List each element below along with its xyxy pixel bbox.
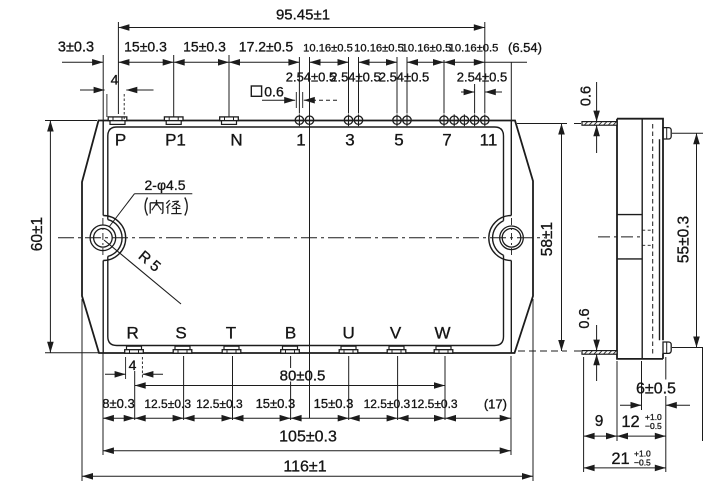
svg-text:7: 7 <box>442 131 451 150</box>
svg-text:R: R <box>127 324 139 343</box>
signal pin x=358.5 <box>354 116 362 124</box>
svg-text:10.16±0.5: 10.16±0.5 <box>303 43 353 55</box>
svg-text:2-φ4.5: 2-φ4.5 <box>145 177 186 193</box>
svg-text:3: 3 <box>345 131 354 150</box>
extension line pin 11 <box>484 22 486 114</box>
svg-text:N: N <box>230 131 242 150</box>
right boss arcs <box>493 221 504 255</box>
side top terminal lug <box>582 122 617 126</box>
extension line case right top <box>510 62 512 121</box>
extension line N <box>228 55 230 117</box>
svg-text:(17): (17) <box>484 397 507 412</box>
side bottom terminal lug <box>582 351 617 355</box>
extension line case left <box>102 55 104 121</box>
terminal lug P <box>108 117 127 121</box>
signal pin 10 <box>470 116 478 124</box>
left boss arcs <box>108 220 122 257</box>
svg-text:15±0.3: 15±0.3 <box>256 396 296 411</box>
dim 10.16 3-5 <box>359 61 398 63</box>
dim 10.16 7-11 <box>444 61 485 63</box>
dim 3±0.3 <box>62 61 103 63</box>
terminal lug V <box>389 346 404 350</box>
svg-text:(6.54): (6.54) <box>508 40 542 55</box>
svg-text:58±1: 58±1 <box>539 222 556 256</box>
svg-text:P1: P1 <box>165 131 186 150</box>
svg-text:15±0.3: 15±0.3 <box>314 396 354 411</box>
svg-text:12: 12 <box>621 413 639 431</box>
svg-text:1: 1 <box>296 131 305 150</box>
side top screw head <box>663 128 671 139</box>
extension lines bottom terminals <box>134 371 136 420</box>
dim 55±0.3 <box>672 132 703 134</box>
dim 60±1 left <box>45 120 97 122</box>
svg-text:9: 9 <box>595 413 604 430</box>
svg-text:T: T <box>226 324 236 343</box>
side view centerline <box>598 236 640 238</box>
svg-text:0.6: 0.6 <box>264 84 284 100</box>
svg-text:12.5±0.3: 12.5±0.3 <box>144 397 191 411</box>
terminal lug W <box>436 346 451 350</box>
right hole vertical centerline <box>511 218 513 258</box>
signal pin x=348.5 <box>344 116 352 124</box>
side hidden hole lines <box>642 229 653 231</box>
case step line right <box>510 121 512 216</box>
svg-text:12.5±0.3: 12.5±0.3 <box>411 397 458 411</box>
dim 10.16 1-3 <box>310 61 349 63</box>
dim 95.45±1 <box>118 27 484 29</box>
label square 0.6 pin section <box>251 86 261 96</box>
svg-text:5: 5 <box>394 131 403 150</box>
svg-text:116±1: 116±1 <box>283 459 326 476</box>
svg-text:8±0.3: 8±0.3 <box>102 396 134 411</box>
left mounting hole <box>94 229 113 248</box>
extension case-right below <box>510 356 512 455</box>
label R5 with leader <box>104 240 181 304</box>
side view internal vertical <box>641 119 643 359</box>
extension line P1 <box>173 55 175 117</box>
dim 17.2±0.5 N-1 <box>229 61 299 63</box>
extension right edge below <box>532 299 534 481</box>
signal pin x=397.0 <box>393 116 401 124</box>
dim 80±0.5 <box>135 385 445 387</box>
inner face outline <box>108 127 504 221</box>
svg-text:2.54±0.5: 2.54±0.5 <box>286 70 337 85</box>
dim 10.16 5-7 <box>407 61 444 63</box>
module body outline (front view) <box>82 121 533 354</box>
signal pin x=299.4 <box>295 116 303 124</box>
signal pin 7 <box>440 116 448 124</box>
right mounting hole <box>502 229 521 248</box>
svg-text:4: 4 <box>129 357 137 373</box>
side boss section lines <box>617 214 642 216</box>
signal pin x=309.5 <box>305 116 313 124</box>
svg-text:S: S <box>175 324 186 343</box>
signal pin 8 <box>450 116 458 124</box>
extension line P center <box>117 22 119 114</box>
vertical line through pin 1b and module <box>309 57 311 418</box>
terminal lug B <box>283 346 298 350</box>
side view body <box>617 119 663 359</box>
svg-text:15±0.3: 15±0.3 <box>183 39 226 55</box>
svg-text:U: U <box>343 324 355 343</box>
svg-text:2.54±0.5: 2.54±0.5 <box>330 70 381 85</box>
signal pin x=407.0 <box>403 116 411 124</box>
svg-text:60±1: 60±1 <box>29 217 46 251</box>
dim 2.54 pins 10-11 <box>461 91 475 93</box>
signal pin 9 <box>460 116 468 124</box>
bottom chain dim line with arrows <box>103 417 511 419</box>
svg-text:0.6: 0.6 <box>579 86 595 106</box>
svg-text:10.16±0.5: 10.16±0.5 <box>402 43 452 55</box>
side bottom extension lines <box>583 357 585 472</box>
horizontal centerline <box>58 237 545 239</box>
svg-text:3±0.3: 3±0.3 <box>58 40 94 56</box>
svg-text:15±0.3: 15±0.3 <box>124 39 167 55</box>
svg-text:17.2±0.5: 17.2±0.5 <box>239 39 294 55</box>
svg-text:0.6: 0.6 <box>577 308 593 328</box>
extension lines pins 1,3,5,7,10 <box>298 57 300 114</box>
svg-text:4: 4 <box>111 71 119 87</box>
svg-text:W: W <box>434 324 450 343</box>
terminal lug T <box>224 346 239 350</box>
svg-text:−0.5: −0.5 <box>634 458 651 468</box>
svg-text:−0.5: −0.5 <box>645 421 662 431</box>
svg-text:6±0.5: 6±0.5 <box>636 381 676 398</box>
svg-text:B: B <box>285 324 296 343</box>
extension case-left below <box>102 353 104 455</box>
terminal lug U <box>341 346 356 350</box>
side view inner right line <box>659 139 661 340</box>
leader square0.6 / dim 2.54 pin1 <box>262 99 295 101</box>
signal pin 11 <box>481 116 489 124</box>
label (inner dia) kanji <box>145 198 187 216</box>
svg-text:80±0.5: 80±0.5 <box>280 368 326 385</box>
left hole vertical centerline <box>102 218 104 258</box>
dim 15±0.3 P1-N <box>174 61 229 63</box>
svg-text:V: V <box>390 324 402 343</box>
svg-text:10.16±0.5: 10.16±0.5 <box>449 43 499 55</box>
svg-text:12.5±0.3: 12.5±0.3 <box>364 397 411 411</box>
dim 58±1 right <box>517 123 567 125</box>
terminal lug S <box>175 346 190 350</box>
dim (6.54) line <box>485 61 527 63</box>
svg-text:95.45±1: 95.45±1 <box>276 7 330 24</box>
svg-text:10.16±0.5: 10.16±0.5 <box>354 43 404 55</box>
svg-text:P: P <box>115 131 126 150</box>
terminal lug P1 <box>164 117 183 121</box>
case step line left <box>102 121 104 216</box>
side view hidden line <box>652 124 654 355</box>
vertical line right of side view <box>702 348 704 442</box>
svg-text:11: 11 <box>480 131 498 150</box>
svg-text:105±0.3: 105±0.3 <box>279 429 337 446</box>
terminal lug N <box>220 117 239 121</box>
dim 15±0.3 P-P1 <box>118 61 173 63</box>
svg-text:2.54±0.5: 2.54±0.5 <box>457 70 508 85</box>
svg-text:12.5±0.3: 12.5±0.3 <box>196 397 243 411</box>
extension left edge below <box>81 299 83 481</box>
svg-text:55±0.3: 55±0.3 <box>676 216 693 263</box>
terminal lug R <box>127 346 142 350</box>
side bottom screw head <box>663 342 671 353</box>
svg-text:2.54±0.5: 2.54±0.5 <box>379 70 430 85</box>
svg-text:21: 21 <box>611 450 629 468</box>
